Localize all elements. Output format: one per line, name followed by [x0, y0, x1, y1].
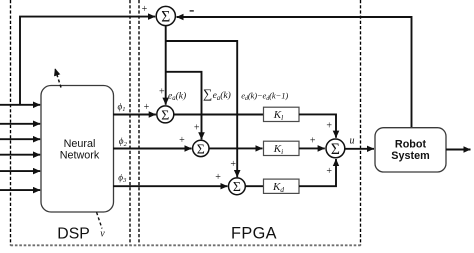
wire u from S5 to robot system — [345, 148, 374, 150]
wire phi2 from neural network to S3 — [113, 148, 192, 150]
summing junction S4 — [229, 178, 246, 195]
svg-text:+: + — [310, 136, 316, 147]
svg-text:Neural: Neural — [64, 138, 96, 150]
svg-text:+: + — [230, 159, 236, 170]
svg-text:u: u — [350, 136, 355, 147]
svg-text:Σ: Σ — [161, 9, 170, 26]
wire S2 output to gain Kl — [174, 114, 264, 116]
input wire 3 — [0, 138, 40, 140]
svg-text:FPGA: FPGA — [231, 225, 277, 243]
derivative branch wire — [166, 41, 238, 177]
gain block Kl — [264, 107, 300, 122]
svg-text:+: + — [179, 135, 185, 146]
robot system output wire — [446, 149, 471, 151]
integral branch wire — [166, 72, 202, 140]
wire Kd output to S5 bottom — [299, 159, 336, 186]
svg-text:+: + — [194, 123, 200, 134]
wire phi3 from neural network to S4 — [113, 185, 228, 187]
gain block Kd — [264, 179, 300, 194]
svg-text:+: + — [326, 120, 332, 131]
svg-text:+: + — [142, 4, 148, 15]
svg-text:+: + — [215, 172, 221, 183]
robot system block — [375, 128, 446, 172]
input wire 5 — [0, 170, 40, 172]
svg-text:Robot: Robot — [395, 139, 427, 151]
svg-text:System: System — [391, 150, 429, 162]
input wire 6 — [0, 189, 40, 191]
FPGA dashed box right border — [360, 0, 362, 246]
svg-text:Network: Network — [60, 149, 100, 161]
svg-text:v: v — [100, 228, 105, 239]
DSP dashed box right border — [129, 0, 131, 246]
DSP dashed box left border — [10, 0, 12, 246]
summing junction S3 — [193, 140, 209, 156]
FPGA dashed box left border — [138, 0, 140, 246]
svg-text:ea(k): ea(k) — [168, 90, 186, 102]
gain block Ki — [264, 141, 300, 156]
wire Ki output to S5 left — [299, 147, 325, 149]
wire Kl output to S5 top — [299, 114, 336, 137]
summing junction S1 — [156, 6, 175, 25]
wire phi1 from neural network to S2 — [113, 114, 156, 116]
svg-text:Σ: Σ — [233, 179, 241, 194]
svg-text:Σ: Σ — [331, 141, 340, 158]
wire S3 output to gain Ki — [209, 147, 263, 149]
svg-text:DSP: DSP — [57, 226, 89, 243]
svg-text:+: + — [326, 166, 332, 177]
error wire S1 down to S2 — [165, 26, 167, 105]
svg-text:Σ: Σ — [197, 141, 205, 156]
input wire 2 — [0, 123, 40, 125]
bottom dashed border — [11, 244, 361, 246]
svg-text:+: + — [159, 86, 165, 97]
input wire 4 — [0, 154, 40, 156]
minus sign at S1 right input — [190, 10, 194, 12]
summing junction S2 — [157, 106, 174, 123]
summing junction S5 — [326, 139, 345, 158]
neural network block — [41, 86, 114, 213]
reference branch wire to summing junction S1 — [20, 17, 155, 105]
svg-text:+: + — [144, 102, 150, 113]
dashed pointer to label v — [97, 212, 102, 228]
dashed learning arrow above neural network — [55, 69, 61, 88]
input wire 1 — [0, 104, 40, 106]
feedback wire from robot system top to S1 — [177, 17, 412, 128]
wire S4 output to gain Kd — [245, 185, 263, 187]
svg-text:Σ: Σ — [161, 107, 169, 122]
